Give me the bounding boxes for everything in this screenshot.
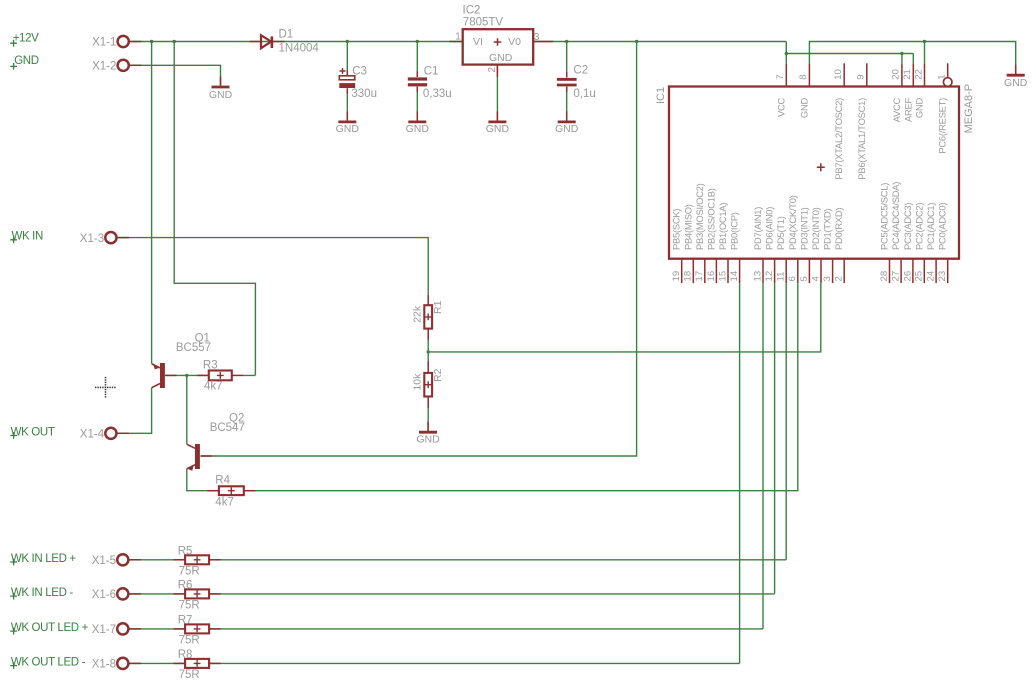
IC1 pin 15 PB1(OC1A) stub xyxy=(717,259,728,283)
capacitor C2 0,1u xyxy=(557,78,577,87)
wire C3 leads xyxy=(346,42,348,120)
svg-text:X1-2: X1-2 xyxy=(92,61,116,73)
svg-text:4: 4 xyxy=(810,276,821,282)
svg-text:GND: GND xyxy=(555,123,579,135)
svg-text:75R: 75R xyxy=(179,669,200,681)
resistor R8 75R xyxy=(185,659,209,668)
wire WK OUT X1-4 to Q1 collector xyxy=(117,388,151,434)
svg-text:R4: R4 xyxy=(215,474,230,486)
svg-text:PD2(INT0): PD2(INT0) xyxy=(810,207,821,250)
IC1 pin 22 GND stub xyxy=(913,63,924,86)
wire R5 row xyxy=(129,559,786,561)
wire R4 to IC1 pin 6 xyxy=(244,283,798,491)
IC1 pin 8 GND stub xyxy=(798,63,809,86)
svg-text:7805TV: 7805TV xyxy=(463,17,504,29)
IC1 pin 9 PB6(XTAL1/TOSC1) stub xyxy=(856,63,867,86)
ground symbol xyxy=(416,422,440,446)
IC1 pin 21 AREF stub xyxy=(902,63,913,86)
wire R8 row xyxy=(129,662,739,664)
net label +12V xyxy=(10,33,39,47)
svg-text:PD5(T1): PD5(T1) xyxy=(775,216,786,250)
svg-text:R8: R8 xyxy=(178,649,193,661)
svg-text:16: 16 xyxy=(706,271,717,282)
svg-text:22: 22 xyxy=(913,69,924,80)
svg-text:WK OUT LED -: WK OUT LED - xyxy=(11,656,86,668)
svg-text:22k: 22k xyxy=(412,305,424,323)
IC1 pin 23 PC0(ADC0) stub xyxy=(937,259,948,283)
svg-text:0,1u: 0,1u xyxy=(573,88,595,100)
wire +12V branch to Q1 emitter xyxy=(151,42,153,364)
svg-text:PB0(ICP): PB0(ICP) xyxy=(729,212,740,250)
svg-text:23: 23 xyxy=(937,271,948,282)
svg-text:PC5(ADC5/SCL): PC5(ADC5/SCL) xyxy=(879,183,890,250)
svg-text:GND: GND xyxy=(1004,77,1028,89)
svg-text:AREF: AREF xyxy=(902,97,913,122)
svg-text:PD1(TXD): PD1(TXD) xyxy=(822,209,833,250)
IC1 pin 25 PC2(ADC2) stub xyxy=(914,259,925,283)
svg-text:PD7(AIN1): PD7(AIN1) xyxy=(752,207,763,250)
transistor Q2 BC547 NPN xyxy=(187,444,200,471)
svg-text:WK OUT LED +: WK OUT LED + xyxy=(11,622,89,634)
svg-text:7: 7 xyxy=(775,74,786,79)
svg-text:4k7: 4k7 xyxy=(204,381,223,393)
svg-text:VCC: VCC xyxy=(775,98,786,118)
wire Q1 base node xyxy=(165,375,255,444)
IC1 pin 12 PD6(AIN0) stub xyxy=(764,259,775,283)
wire IC2 GND pin 2 lead xyxy=(496,65,498,120)
svg-text:R1: R1 xyxy=(432,300,444,314)
svg-text:WK OUT: WK OUT xyxy=(11,426,55,438)
net label GND xyxy=(10,55,39,70)
svg-text:18: 18 xyxy=(683,271,694,282)
svg-text:PC1(ADC1): PC1(ADC1) xyxy=(925,203,936,250)
svg-text:2: 2 xyxy=(487,67,498,73)
svg-text:2: 2 xyxy=(834,276,845,281)
svg-text:C2: C2 xyxy=(573,65,588,77)
wire IC1 pin 12 to R6 xyxy=(774,283,776,594)
wire C2 leads xyxy=(566,42,568,120)
svg-text:19: 19 xyxy=(671,271,682,282)
svg-text:PD4(XCK/T0): PD4(XCK/T0) xyxy=(787,195,798,250)
svg-text:PC6(/RESET): PC6(/RESET) xyxy=(937,98,948,154)
svg-text:R3: R3 xyxy=(203,360,218,372)
svg-text:R2: R2 xyxy=(432,368,444,382)
svg-text:PB4(MISO): PB4(MISO) xyxy=(682,204,693,250)
svg-text:13: 13 xyxy=(752,271,763,282)
IC1 pin 5 PD3(INT1) stub xyxy=(799,259,810,283)
svg-text:IC2: IC2 xyxy=(463,4,481,16)
svg-text:PB3(MOSI/OC2): PB3(MOSI/OC2) xyxy=(694,183,705,250)
pin stubs (red) on wires xyxy=(117,42,566,664)
svg-text:12: 12 xyxy=(764,271,775,282)
net label WK OUT xyxy=(10,426,55,439)
svg-text:GND: GND xyxy=(798,98,809,119)
wire R7 row xyxy=(129,628,763,630)
svg-text:C1: C1 xyxy=(424,65,439,77)
svg-text:VI: VI xyxy=(473,36,483,48)
resistor R3 4k7 xyxy=(209,371,232,381)
svg-text:PC4(ADC4/SDA): PC4(ADC4/SDA) xyxy=(890,182,901,250)
connector pin X1-5 xyxy=(92,554,129,567)
ground symbol xyxy=(336,111,360,135)
resistor R4 4k7 xyxy=(219,486,244,495)
IC1 pin 13 PD7(AIN1) stub xyxy=(752,259,763,283)
wire AVCC/AREF feed xyxy=(786,54,913,64)
svg-text:PD0(RXD): PD0(RXD) xyxy=(833,208,844,250)
ground symbol xyxy=(1004,65,1028,89)
svg-text:PC2(ADC2): PC2(ADC2) xyxy=(913,203,924,250)
wire +12V branch to R3 pull-up xyxy=(174,42,255,376)
wire +5V down to IC1 VCC pin 7 xyxy=(785,42,787,64)
svg-text:X1-8: X1-8 xyxy=(92,659,116,671)
svg-text:WK IN LED +: WK IN LED + xyxy=(11,553,76,565)
svg-text:6: 6 xyxy=(787,276,798,281)
IC1 pin 2 PD0(RXD) stub xyxy=(834,259,845,283)
IC1 pin 4 PD2(INT0) stub xyxy=(810,259,821,283)
svg-text:R6: R6 xyxy=(178,580,193,592)
wire X1-2 GND xyxy=(130,65,221,85)
svg-text:GND: GND xyxy=(486,123,510,135)
svg-text:9: 9 xyxy=(856,74,867,79)
svg-text:14: 14 xyxy=(729,270,740,281)
capacitor C3 330u electrolytic xyxy=(339,68,355,88)
svg-text:C3: C3 xyxy=(352,65,367,77)
svg-text:27: 27 xyxy=(891,271,902,282)
svg-text:X1-1: X1-1 xyxy=(92,37,116,49)
svg-text:WK IN: WK IN xyxy=(12,231,44,243)
IC1 pin 27 PC4(ADC4/SDA) stub xyxy=(891,259,902,283)
svg-text:BC547: BC547 xyxy=(210,422,245,434)
IC1 pin 6 PD4(XCK/T0) stub xyxy=(787,259,798,283)
svg-text:75R: 75R xyxy=(179,600,200,612)
IC1 pin 17 PB3(MOSI/OC2) stub xyxy=(694,259,705,283)
svg-text:R5: R5 xyxy=(178,546,193,558)
svg-text:75R: 75R xyxy=(179,635,200,647)
svg-text:WK IN LED -: WK IN LED - xyxy=(11,587,73,599)
microcontroller IC1 MEGA8-P box xyxy=(669,87,959,259)
IC1 pin 16 PB2(SS/OC1B) stub xyxy=(706,259,717,283)
svg-text:GND: GND xyxy=(209,89,233,101)
wire Q2 emitter to R4 xyxy=(187,469,219,491)
svg-text:GND: GND xyxy=(416,434,440,446)
svg-text:PD6(AIN0): PD6(AIN0) xyxy=(764,207,775,250)
resistor R6 75R xyxy=(185,589,209,598)
svg-text:MEGA8-P: MEGA8-P xyxy=(963,84,975,134)
net label WK IN LED - xyxy=(10,587,73,600)
svg-text:1: 1 xyxy=(455,32,461,43)
wire R1/R2 divider node to IC1 pin 4 xyxy=(428,283,821,373)
voltage regulator IC2 7805TV box xyxy=(463,29,534,64)
IC1 pin 10 PB7(XTAL2/TOSC2) stub xyxy=(833,63,844,86)
svg-text:IC1: IC1 xyxy=(655,87,667,104)
svg-text:3: 3 xyxy=(534,32,540,43)
wire C1 leads xyxy=(416,42,418,120)
IC1 pin 19 PB5(SCK) stub xyxy=(671,259,682,283)
svg-text:PC3(ADC3): PC3(ADC3) xyxy=(902,203,913,250)
svg-text:20: 20 xyxy=(891,69,902,80)
wire WK IN net X1-3 to R1 xyxy=(117,238,428,295)
svg-text:8: 8 xyxy=(798,74,809,79)
svg-text:25: 25 xyxy=(914,271,925,282)
IC1 pin 20 AVCC stub xyxy=(891,63,902,86)
svg-text:PD3(INT1): PD3(INT1) xyxy=(798,207,809,250)
resistor R1 22k xyxy=(424,305,432,328)
wire IC1 pin 14 to R8 xyxy=(739,283,741,663)
svg-text:GND: GND xyxy=(336,123,360,135)
svg-text:24: 24 xyxy=(926,270,937,281)
net label WK IN xyxy=(10,231,43,244)
svg-text:5: 5 xyxy=(799,276,810,281)
svg-text:GND: GND xyxy=(489,52,513,64)
IC1 pin 7 VCC stub xyxy=(775,63,786,86)
ground symbol xyxy=(209,77,233,101)
IC1 pin 14 PB0(ICP) stub xyxy=(729,259,740,283)
IC1 pin 11 PD5(T1) stub xyxy=(776,259,787,283)
IC1 pin 28 PC5(ADC5/SCL) stub xyxy=(879,259,890,283)
svg-text:AVCC: AVCC xyxy=(891,98,902,123)
transistor Q1 BC557 PNP xyxy=(152,363,165,388)
wire R6 row xyxy=(129,593,774,595)
connector pin X1-2 xyxy=(92,60,129,73)
svg-text:PB2(SS/OC1B): PB2(SS/OC1B) xyxy=(705,188,716,250)
IC1 pin 18 PB4(MISO) stub xyxy=(683,259,694,283)
wire R2 to GND xyxy=(427,397,429,431)
svg-text:PB6(XTAL1/TOSC1): PB6(XTAL1/TOSC1) xyxy=(856,98,867,180)
svg-text:11: 11 xyxy=(776,272,787,282)
ground symbol xyxy=(555,111,579,135)
IC2 pin names VI VO GND xyxy=(473,36,521,64)
svg-text:10: 10 xyxy=(833,69,844,80)
connector pin X1-3 xyxy=(80,232,117,245)
svg-text:GND: GND xyxy=(914,98,925,119)
svg-text:17: 17 xyxy=(694,271,705,282)
svg-text:PC0(ADC0): PC0(ADC0) xyxy=(937,203,948,250)
svg-text:4k7: 4k7 xyxy=(215,496,234,508)
svg-text:X1-3: X1-3 xyxy=(80,233,104,245)
IC1 origin cross xyxy=(817,163,825,171)
ground symbol xyxy=(406,111,430,135)
wire IC1 pin 11 to R5 xyxy=(785,283,787,560)
svg-text:V0: V0 xyxy=(508,36,521,48)
IC2 origin cross xyxy=(494,38,502,46)
connector pin X1-8 xyxy=(92,658,129,671)
capacitor C1 0,33u xyxy=(408,77,427,86)
svg-text:D1: D1 xyxy=(279,28,294,40)
svg-text:26: 26 xyxy=(902,271,913,282)
svg-text:X1-6: X1-6 xyxy=(92,589,116,601)
svg-text:1: 1 xyxy=(937,74,948,79)
wire IC1 pin 13 to R7 xyxy=(762,283,764,629)
connector pin X1-1 xyxy=(92,36,129,49)
IC1 pin 1 PC6(/RESET) reset with bubble xyxy=(937,63,953,86)
connector pin X1-4 xyxy=(80,428,117,441)
svg-text:0,33u: 0,33u xyxy=(423,88,452,100)
wire +12V/+5V top rail xyxy=(130,41,787,43)
svg-text:21: 21 xyxy=(902,69,913,80)
wire Q2 base net to +5V rail xyxy=(201,42,637,457)
svg-text:GND: GND xyxy=(14,55,39,67)
diode D1 1N4004 xyxy=(261,35,272,48)
origin crosshair marker xyxy=(95,377,116,398)
svg-text:PB1(OC1A): PB1(OC1A) xyxy=(717,203,728,250)
ground symbol xyxy=(486,111,510,135)
svg-text:75R: 75R xyxy=(179,566,200,578)
net label WK IN LED + xyxy=(10,553,76,566)
svg-text:28: 28 xyxy=(879,271,890,282)
connector pin X1-6 xyxy=(92,588,129,601)
svg-text:15: 15 xyxy=(717,271,728,282)
svg-text:X1-4: X1-4 xyxy=(80,429,105,441)
svg-text:3: 3 xyxy=(822,276,833,281)
svg-text:1N4004: 1N4004 xyxy=(279,42,320,54)
connector pin X1-7 xyxy=(92,623,129,636)
resistor R5 75R xyxy=(185,555,209,564)
svg-text:330u: 330u xyxy=(351,88,377,100)
IC1 pin 3 PD1(TXD) stub xyxy=(822,259,833,283)
svg-text:R7: R7 xyxy=(178,615,193,627)
net label WK OUT LED - xyxy=(10,656,85,669)
resistor R7 75R xyxy=(185,624,209,633)
svg-text:GND: GND xyxy=(406,123,430,135)
wire GND run pin8 pin22 to GND symbol xyxy=(809,42,1015,74)
IC1 pin 24 PC1(ADC1) stub xyxy=(926,259,937,283)
svg-text:PB5(SCK): PB5(SCK) xyxy=(671,209,682,250)
svg-text:PB7(XTAL2/TOSC2): PB7(XTAL2/TOSC2) xyxy=(833,98,844,180)
net label WK OUT LED + xyxy=(10,622,88,635)
svg-text:10k: 10k xyxy=(412,373,424,391)
svg-text:X1-5: X1-5 xyxy=(92,555,116,567)
svg-text:BC557: BC557 xyxy=(176,342,211,354)
IC1 pin 26 PC3(ADC3) stub xyxy=(902,259,913,283)
resistor R2 10k xyxy=(424,373,432,397)
svg-text:X1-7: X1-7 xyxy=(92,624,116,636)
